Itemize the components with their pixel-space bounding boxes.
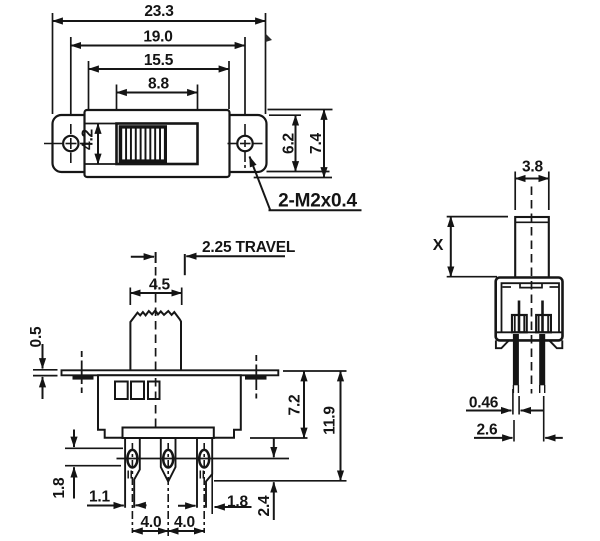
right base foot (549, 340, 562, 348)
stray arrowhead artifact on right extension line (266, 34, 273, 43)
knob centerline through body (155, 378, 157, 436)
dimension 7.2 bottom extension line (250, 437, 308, 439)
label 2-M2x0.4 underline (269, 209, 362, 211)
right pin (side view) (539, 334, 545, 385)
oval centers line (117, 458, 290, 460)
dimension 4.0 left segment (132, 530, 168, 532)
dimension 8.8 extension lines (116, 85, 118, 123)
inner bottom line (497, 331, 562, 333)
left mounting hole (63, 136, 78, 151)
pin 1 centerline (131, 443, 133, 533)
switch central raised body (top view) (85, 110, 230, 177)
pin 3 (right terminal) (197, 438, 212, 508)
knob cap line (515, 221, 549, 223)
inner corner stub left (503, 286, 512, 288)
svg-text:X: X (433, 237, 444, 254)
switch flange plate (top view outline) (53, 115, 267, 172)
window 1 (115, 382, 128, 400)
left hole centerlines (44, 124, 88, 163)
svg-text:2.25 TRAVEL: 2.25 TRAVEL (202, 239, 295, 256)
svg-text:4.5: 4.5 (149, 277, 171, 294)
dimension 19.0 extension lines (70, 37, 72, 114)
label 2.25 TRAVEL arrow (186, 255, 285, 257)
travel start arrow (131, 256, 154, 258)
dimension 0.46 extension lines (512, 389, 514, 415)
right screw centerline (255, 355, 257, 399)
dimension 19.0 (71, 45, 245, 47)
dimension 1.8 left extension lines (65, 447, 123, 449)
inner corner stub right (550, 286, 559, 288)
right mounting hole (237, 136, 252, 151)
slider slot opening (117, 124, 198, 165)
svg-text:11.9: 11.9 (322, 406, 339, 435)
dimension 0.5 extension lines (33, 369, 58, 371)
left inner pin (518, 301, 521, 333)
svg-text:4.0: 4.0 (141, 514, 162, 531)
dimension 0.46 (466, 410, 511, 412)
svg-text:1.1: 1.1 (89, 489, 111, 506)
svg-text:2-M2x0.4: 2-M2x0.4 (278, 191, 357, 212)
mounting flange (front view) (62, 370, 279, 375)
dimension 15.5 extension lines (88, 61, 90, 109)
dimension 4.2 extension lines (84, 123, 116, 125)
dimension X top extension line (447, 216, 508, 218)
svg-text:7.2: 7.2 (287, 395, 304, 416)
svg-text:6.2: 6.2 (281, 133, 298, 154)
knob centerline (front view) (155, 267, 157, 375)
dimension 7.2 / 11.9 top extension line (283, 370, 347, 372)
dimension 1.1 (87, 505, 124, 507)
window 2 (131, 382, 144, 400)
dimension 6.2 extension lines (269, 114, 301, 116)
dimension 0.5 arrows (42, 344, 44, 369)
svg-text:7.4: 7.4 (308, 132, 325, 154)
right flange tab (245, 375, 267, 379)
svg-text:23.3: 23.3 (144, 3, 174, 20)
pin 1 (left terminal) (125, 438, 140, 508)
slider knob (hatched) (119, 125, 167, 163)
svg-text:15.5: 15.5 (144, 52, 174, 69)
dimension 7.4 (323, 110, 325, 178)
dimension 3.8 (515, 178, 549, 180)
dimension 7.2 (303, 371, 305, 438)
dimension 6.2 (295, 115, 297, 171)
dimension 15.5 (89, 68, 230, 70)
terminal strip (123, 428, 214, 439)
left base foot (496, 340, 509, 348)
dimension 1.8 right (178, 505, 196, 507)
svg-text:2.4: 2.4 (256, 495, 273, 517)
svg-text:8.8: 8.8 (148, 76, 170, 93)
left pin (side view) (513, 334, 519, 385)
actuator knob (front view, broken top) (130, 310, 181, 370)
pin 3 centerline (203, 443, 205, 533)
actuator knob (side view) (515, 217, 549, 278)
dimension 23.3 (53, 20, 266, 22)
pin 2 (center terminal) (161, 438, 176, 482)
left contact post (512, 315, 527, 332)
left flange tab (73, 375, 94, 379)
dimension 4.2 (97, 124, 99, 165)
svg-text:0.5: 0.5 (28, 326, 45, 348)
pin 3 right extension line (211, 474, 213, 514)
svg-text:2.6: 2.6 (477, 422, 499, 439)
right contact post (536, 315, 551, 332)
svg-text:4.0: 4.0 (174, 514, 195, 531)
dimension 4.5 extension lines (129, 288, 131, 306)
dimension 2.6 (474, 437, 513, 439)
dimension 1.8 left arrows (73, 430, 75, 448)
leader line to right mounting hole (250, 157, 271, 211)
oval hole pin 3 (199, 450, 209, 468)
right hole centerlines (228, 124, 263, 168)
svg-text:1.8: 1.8 (227, 494, 249, 511)
switch body (front view) (98, 375, 241, 437)
dimension 11.9 bottom extension line (214, 480, 347, 482)
dimension 8.8 (117, 92, 198, 94)
window 3 (148, 382, 160, 400)
dimension X (450, 217, 452, 277)
left screw centerline (81, 351, 83, 393)
oval hole pin 1 (127, 450, 137, 468)
svg-text:3.8: 3.8 (522, 159, 544, 176)
svg-text:1.8: 1.8 (51, 477, 68, 499)
oval hole pin 2 (163, 450, 173, 468)
body inner wall (502, 283, 560, 332)
travel start tick (155, 252, 157, 263)
switch body (side view) (496, 278, 563, 341)
right inner pin (541, 301, 544, 333)
svg-text:4.2: 4.2 (80, 129, 97, 150)
dimension 7.4 extension lines (268, 109, 333, 111)
dimension 23.3 extension lines (52, 13, 54, 114)
dimension 11.9 (340, 371, 342, 481)
dimension 4.5 (130, 292, 181, 294)
dimension 2.4 arrows (273, 438, 275, 458)
pin 2 centerline (167, 443, 169, 539)
dimension 3.8 extension lines (514, 172, 516, 211)
dimension 2.6 extension lines (513, 420, 515, 442)
travel end line (184, 254, 186, 275)
svg-text:19.0: 19.0 (143, 29, 172, 46)
dimension 4.0 right segment (168, 530, 204, 532)
top recess notch (520, 283, 542, 287)
svg-text:0.46: 0.46 (469, 395, 499, 412)
dimension X bottom extension line (447, 276, 497, 278)
knob centerline (side view) (531, 187, 533, 394)
